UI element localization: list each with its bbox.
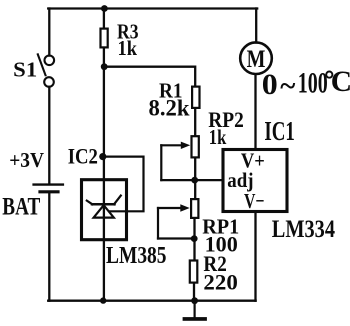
- svg-text:1k: 1k: [118, 36, 138, 60]
- svg-text:IC2: IC2: [68, 144, 98, 169]
- svg-text:220: 220: [203, 270, 237, 295]
- svg-text:S1: S1: [13, 58, 37, 82]
- svg-text:1k: 1k: [209, 125, 227, 149]
- svg-text:100: 100: [298, 68, 328, 100]
- svg-text:+3V: +3V: [9, 148, 44, 172]
- svg-text:V−: V−: [244, 189, 265, 213]
- svg-text:BAT: BAT: [2, 193, 40, 220]
- svg-text:~: ~: [280, 70, 295, 102]
- svg-text:8.2k: 8.2k: [149, 95, 190, 120]
- svg-text:0: 0: [262, 69, 278, 101]
- svg-text:adj: adj: [227, 168, 253, 192]
- svg-text:LM385: LM385: [106, 242, 167, 269]
- svg-text:LM334: LM334: [272, 216, 336, 243]
- svg-text:IC1: IC1: [264, 116, 295, 146]
- svg-text:C: C: [331, 66, 350, 98]
